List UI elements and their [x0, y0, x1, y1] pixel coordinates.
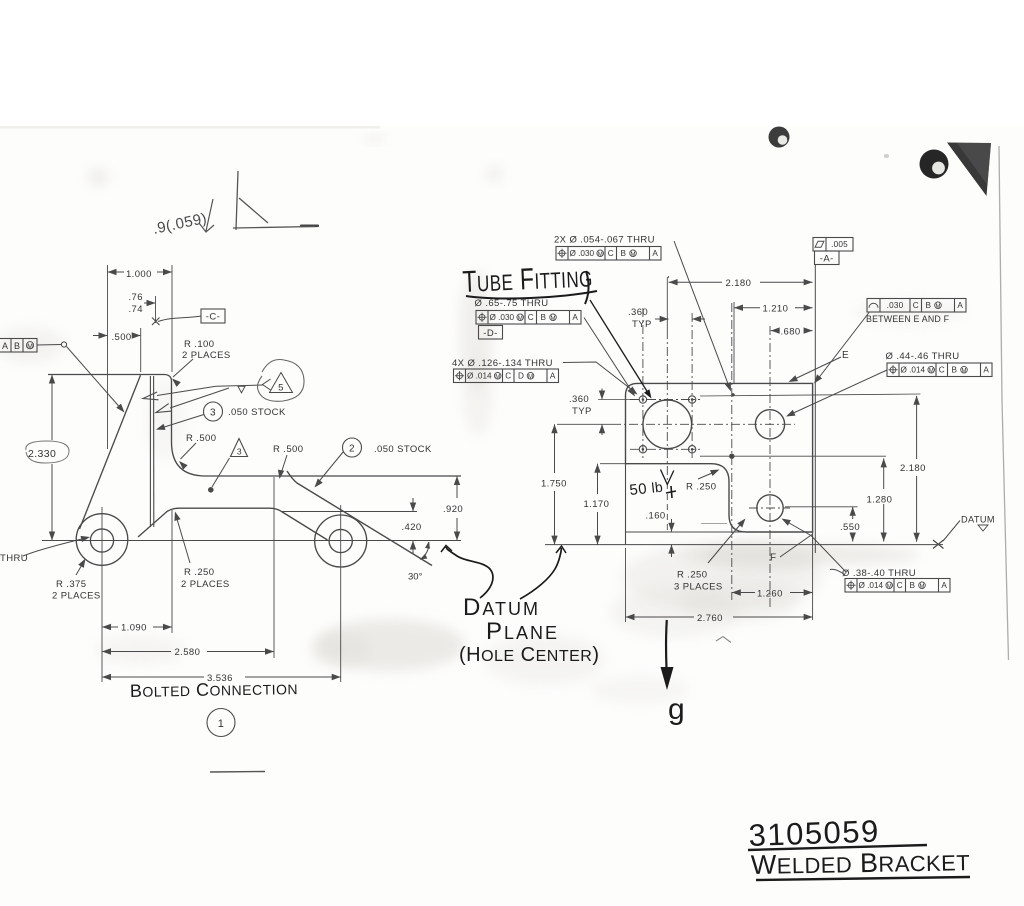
svg-text:.360: .360: [569, 394, 589, 405]
svg-text:B: B: [621, 249, 627, 258]
svg-text:2 PLACES: 2 PLACES: [181, 579, 230, 590]
svg-text:2.760: 2.760: [697, 613, 723, 624]
svg-text:3: 3: [210, 408, 216, 419]
svg-text:(HOLE CENTER): (HOLE CENTER): [459, 644, 600, 666]
svg-text:M: M: [962, 368, 967, 374]
svg-text:A: A: [572, 313, 578, 322]
svg-text:R .500: R .500: [273, 444, 303, 455]
svg-text:2.330: 2.330: [28, 448, 56, 460]
svg-text:M: M: [936, 304, 941, 310]
svg-text:-C-: -C-: [206, 312, 220, 323]
svg-text:1.170: 1.170: [584, 499, 610, 510]
svg-text:.74: .74: [129, 304, 143, 315]
svg-text:THRU: THRU: [0, 553, 28, 564]
svg-text:C: C: [528, 313, 534, 322]
svg-text:M: M: [27, 343, 33, 350]
svg-text:E: E: [842, 350, 849, 361]
svg-text:M: M: [495, 374, 500, 380]
svg-text:Ø .014: Ø .014: [859, 581, 884, 590]
svg-text:1.260: 1.260: [757, 589, 783, 600]
svg-text:C: C: [913, 301, 919, 310]
svg-text:R .250: R .250: [686, 482, 716, 493]
svg-text:.160: .160: [646, 511, 666, 522]
svg-text:4X Ø .126-.134 THRU: 4X Ø .126-.134 THRU: [452, 358, 553, 369]
svg-text:A: A: [652, 249, 658, 258]
svg-text:.76: .76: [129, 292, 143, 303]
svg-text:.500: .500: [112, 332, 132, 343]
svg-text:M: M: [887, 584, 892, 590]
svg-text:M: M: [528, 374, 533, 380]
svg-text:2 PLACES: 2 PLACES: [52, 591, 101, 602]
svg-text:R .100: R .100: [184, 339, 214, 350]
svg-text:M: M: [518, 316, 523, 322]
svg-text:.920: .920: [443, 504, 463, 515]
svg-text:DATUM: DATUM: [463, 594, 540, 621]
svg-text:2 PLACES: 2 PLACES: [182, 350, 231, 361]
svg-text:.550: .550: [840, 522, 860, 533]
svg-text:2X Ø .054-.067 THRU: 2X Ø .054-.067 THRU: [554, 235, 655, 246]
svg-text:2.580: 2.580: [175, 647, 201, 658]
svg-text:1.280: 1.280: [867, 495, 893, 506]
svg-text:R .250: R .250: [677, 570, 707, 581]
svg-text:1.000: 1.000: [126, 269, 152, 280]
svg-text:-D-: -D-: [483, 328, 497, 339]
svg-text:30°: 30°: [408, 572, 423, 583]
svg-text:DATUM: DATUM: [961, 515, 995, 525]
svg-text:C: C: [939, 366, 945, 375]
svg-text:1.210: 1.210: [763, 304, 789, 315]
svg-text:M: M: [551, 316, 556, 322]
svg-text:1.750: 1.750: [541, 479, 567, 490]
svg-text:C: C: [608, 249, 614, 258]
svg-text:C: C: [897, 581, 903, 590]
svg-text:3 PLACES: 3 PLACES: [674, 582, 723, 593]
svg-text:2: 2: [349, 444, 355, 455]
svg-text:2.180: 2.180: [900, 463, 926, 474]
svg-text:g: g: [668, 693, 685, 726]
svg-text:Ø .44-.46 THRU: Ø .44-.46 THRU: [886, 351, 960, 362]
svg-text:F: F: [770, 553, 777, 564]
svg-text:.680: .680: [781, 327, 801, 338]
svg-text:3: 3: [237, 447, 242, 457]
svg-text:C: C: [505, 372, 511, 381]
svg-text:2.180: 2.180: [726, 278, 752, 289]
svg-text:.360: .360: [628, 307, 648, 318]
svg-text:BETWEEN E AND F: BETWEEN E AND F: [866, 314, 950, 324]
svg-text:TYP: TYP: [572, 406, 592, 417]
svg-text:.005: .005: [831, 240, 848, 249]
svg-text:R .375: R .375: [56, 579, 86, 590]
svg-text:1: 1: [218, 718, 225, 730]
svg-text:.420: .420: [402, 522, 422, 533]
svg-text:A: A: [957, 301, 963, 310]
svg-text:Ø .38-.40 THRU: Ø .38-.40 THRU: [842, 568, 916, 579]
svg-text:Ø .030: Ø .030: [570, 249, 595, 258]
svg-text:M: M: [631, 252, 636, 258]
svg-text:Ø .65-.75 THRU: Ø .65-.75 THRU: [475, 298, 549, 309]
svg-text:M: M: [598, 252, 603, 258]
svg-text:-A-: -A-: [820, 254, 834, 265]
svg-text:B: B: [926, 301, 932, 310]
svg-text:Ø .014: Ø .014: [901, 366, 926, 375]
svg-text:.050 STOCK: .050 STOCK: [228, 407, 286, 418]
svg-text:M: M: [929, 368, 934, 374]
svg-text:D: D: [518, 372, 524, 381]
svg-text:A: A: [2, 341, 8, 351]
svg-text:B: B: [541, 313, 547, 322]
svg-text:A: A: [550, 372, 556, 381]
svg-text:TYP: TYP: [632, 319, 652, 330]
svg-text:R .250: R .250: [184, 567, 214, 578]
svg-text:B: B: [14, 341, 20, 351]
svg-text:B: B: [910, 581, 916, 590]
svg-text:Ø .014: Ø .014: [467, 372, 492, 381]
svg-text:1.090: 1.090: [121, 623, 147, 634]
svg-text:.030: .030: [887, 301, 904, 310]
svg-text:PLANE: PLANE: [486, 618, 559, 645]
svg-text:B: B: [952, 366, 958, 375]
svg-text:A: A: [983, 366, 989, 375]
svg-text:M: M: [920, 584, 925, 590]
svg-text:R .500: R .500: [186, 433, 216, 444]
svg-text:A: A: [941, 581, 947, 590]
svg-text:5: 5: [278, 383, 284, 394]
svg-text:.050 STOCK: .050 STOCK: [374, 444, 432, 455]
svg-text:Ø .030: Ø .030: [490, 313, 515, 322]
